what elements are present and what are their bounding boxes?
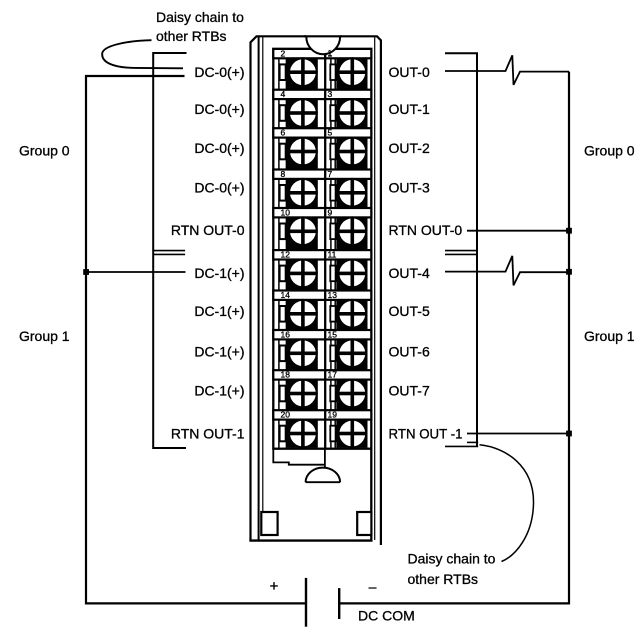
terminal 8 cavity bbox=[287, 179, 318, 208]
RTB inner wall left bbox=[258, 36, 260, 540]
terminal 1 wire clamp bbox=[330, 64, 335, 80]
terminal 18 wire clamp bbox=[280, 386, 286, 402]
RTB top notch arc bbox=[306, 37, 340, 55]
terminal 19 rail a bbox=[330, 420, 332, 448]
svg-text:OUT-0: OUT-0 bbox=[389, 64, 430, 80]
junction: RTN OUT-0 / bus bbox=[566, 228, 572, 234]
RTB inner wall left thin bbox=[262, 37, 264, 512]
svg-text:OUT-3: OUT-3 bbox=[389, 179, 430, 195]
terminal 16 screw cross bbox=[288, 352, 317, 356]
svg-text:DC-1(+): DC-1(+) bbox=[194, 343, 244, 359]
terminal 20 rail b bbox=[285, 420, 287, 448]
terminal 12 screw cross bbox=[288, 272, 317, 276]
terminal row 8|7 number bar bbox=[273, 170, 371, 179]
svg-text:OUT-7: OUT-7 bbox=[389, 383, 430, 399]
junction: RTN OUT-1 / bus bbox=[566, 431, 572, 437]
terminal 2 screw bbox=[289, 58, 317, 86]
terminal 14 screw bbox=[289, 300, 317, 328]
terminal 1 screw bbox=[338, 58, 366, 86]
terminal 15 rail a bbox=[330, 339, 332, 370]
svg-text:DC-0(+): DC-0(+) bbox=[194, 64, 244, 80]
terminal 16 rail a bbox=[278, 339, 280, 370]
svg-text:1: 1 bbox=[328, 48, 333, 58]
svg-text:18: 18 bbox=[281, 370, 291, 380]
bracket: Group 0/1 left terminals bbox=[153, 53, 186, 448]
terminal 10 cavity bbox=[287, 217, 318, 250]
wire: daisy-chain curve bottom bbox=[480, 445, 534, 562]
terminal 3 wire clamp bbox=[330, 105, 335, 121]
battery negative plate bbox=[338, 588, 340, 619]
terminal 9 wire clamp bbox=[330, 224, 335, 240]
terminal 5 rail a bbox=[330, 138, 332, 170]
terminal 19 rail b bbox=[334, 420, 336, 448]
svg-text:OUT-4: OUT-4 bbox=[389, 265, 430, 281]
RTB keying step bbox=[273, 449, 325, 465]
svg-text:OUT-5: OUT-5 bbox=[389, 303, 430, 319]
svg-text:5: 5 bbox=[328, 128, 333, 138]
terminal 3 cavity bbox=[336, 99, 367, 128]
terminal 5 screw cross bbox=[338, 150, 367, 154]
terminal 12 screw bbox=[289, 260, 317, 288]
terminal 12 rail b bbox=[285, 260, 287, 291]
RTB center divider bbox=[324, 49, 326, 449]
terminal 4 wire clamp bbox=[280, 105, 286, 121]
svg-text:Daisy chain to: Daisy chain to bbox=[156, 9, 244, 25]
terminal 14 rail a bbox=[278, 300, 280, 330]
terminal 7 cavity bbox=[336, 179, 367, 208]
terminal 7 screw cross bbox=[338, 191, 367, 195]
svg-text:RTN OUT-0: RTN OUT-0 bbox=[171, 222, 245, 238]
terminal 12 wire clamp bbox=[280, 266, 286, 282]
terminal 6 wire clamp bbox=[280, 144, 286, 160]
terminal 18 cavity bbox=[287, 380, 318, 411]
wire: RTN OUT-0 return bbox=[467, 230, 569, 232]
terminal 11 cavity bbox=[336, 260, 367, 291]
terminal 11 rail b bbox=[334, 260, 336, 291]
terminal 15 wire clamp bbox=[330, 346, 335, 362]
svg-text:RTN OUT-1: RTN OUT-1 bbox=[171, 425, 245, 441]
terminal 14 cavity bbox=[287, 300, 318, 330]
terminal 20 screw bbox=[289, 420, 317, 448]
terminal 17 screw cross bbox=[338, 392, 367, 396]
svg-text:Group 1: Group 1 bbox=[584, 328, 635, 344]
RTB top notch fill bbox=[306, 35, 340, 54]
terminal 6 rail b bbox=[285, 138, 287, 170]
terminal 10 wire clamp bbox=[280, 224, 286, 240]
terminal 10 screw cross bbox=[288, 230, 317, 234]
terminal 3 screw cross bbox=[338, 111, 367, 115]
terminal 12 cavity bbox=[287, 260, 318, 291]
wire: daisy-chain loop to DC-0(+) bbox=[102, 40, 183, 68]
svg-text:7: 7 bbox=[328, 169, 333, 179]
terminal 15 rail b bbox=[334, 339, 336, 370]
terminal 17 rail b bbox=[334, 380, 336, 411]
svg-text:Group 1: Group 1 bbox=[19, 328, 70, 344]
terminal row 14|13 number bar bbox=[273, 291, 371, 300]
terminal 14 wire clamp bbox=[280, 306, 286, 322]
terminal 1 cavity bbox=[336, 58, 367, 89]
terminal 13 rail b bbox=[334, 300, 336, 330]
svg-text:RTN OUT -1: RTN OUT -1 bbox=[389, 425, 463, 441]
svg-text:DC-1(+): DC-1(+) bbox=[194, 383, 244, 399]
stub: group boundary right lower bbox=[445, 253, 477, 255]
svg-text:2: 2 bbox=[281, 48, 286, 58]
terminal 17 screw bbox=[338, 380, 366, 408]
svg-text:RTN OUT-0: RTN OUT-0 bbox=[389, 222, 463, 238]
wire: DC-1(+) feed bbox=[86, 271, 186, 273]
terminal 11 wire clamp bbox=[330, 266, 335, 282]
svg-text:10: 10 bbox=[281, 207, 291, 217]
terminal 6 rail a bbox=[278, 138, 280, 170]
terminal 6 screw bbox=[289, 138, 317, 166]
terminal 16 cavity bbox=[287, 339, 318, 370]
terminal row 12|11 number bar bbox=[273, 250, 371, 259]
junction: left bus / DC-1 tap bbox=[83, 269, 89, 275]
terminal 3 screw bbox=[338, 99, 366, 127]
terminal 15 screw bbox=[338, 339, 366, 367]
terminal row 18|17 number bar bbox=[273, 370, 371, 379]
wire: left DC bus (battery + to DC-0) bbox=[86, 76, 305, 603]
terminal 4 screw bbox=[289, 99, 317, 127]
svg-text:12: 12 bbox=[281, 250, 291, 260]
terminal 8 rail a bbox=[278, 179, 280, 208]
terminal 19 wire clamp bbox=[330, 426, 335, 442]
svg-text:4: 4 bbox=[281, 89, 286, 99]
terminal 3 rail b bbox=[334, 99, 336, 128]
svg-text:8: 8 bbox=[281, 169, 286, 179]
terminal 10 rail b bbox=[285, 217, 287, 250]
terminal 7 wire clamp bbox=[330, 185, 335, 201]
stub: group boundary right upper bbox=[445, 250, 477, 252]
svg-text:15: 15 bbox=[328, 329, 338, 339]
svg-text:–: – bbox=[369, 579, 377, 595]
terminal 18 rail b bbox=[285, 380, 287, 411]
terminal 19 screw cross bbox=[338, 432, 367, 436]
terminal row 16|15 number bar bbox=[273, 330, 371, 339]
terminal 20 cavity bbox=[287, 420, 318, 448]
svg-text:17: 17 bbox=[328, 370, 338, 380]
terminal 16 wire clamp bbox=[280, 346, 286, 362]
terminal 15 screw cross bbox=[338, 352, 367, 356]
terminal 5 wire clamp bbox=[330, 144, 335, 160]
svg-text:DC-1(+): DC-1(+) bbox=[194, 265, 244, 281]
bracket: Group 0/1 right terminals bbox=[445, 53, 477, 446]
terminal 7 rail b bbox=[334, 179, 336, 208]
svg-text:OUT-6: OUT-6 bbox=[389, 343, 430, 359]
terminal 7 screw bbox=[338, 179, 366, 207]
svg-text:6: 6 bbox=[281, 128, 286, 138]
RTB housing outline bbox=[251, 36, 381, 545]
svg-text:Group 0: Group 0 bbox=[19, 143, 70, 159]
terminal 1 rail a bbox=[330, 58, 332, 89]
terminal 20 wire clamp bbox=[280, 426, 286, 442]
svg-text:Group 0: Group 0 bbox=[584, 143, 635, 159]
terminal 4 rail b bbox=[285, 99, 287, 128]
terminal 6 screw cross bbox=[288, 150, 317, 154]
terminal 2 cavity bbox=[287, 58, 318, 89]
terminal 13 screw bbox=[338, 300, 366, 328]
RTB top edge over notch bbox=[304, 35, 342, 37]
terminal row 2|1 number bar bbox=[273, 49, 371, 58]
terminal 19 screw bbox=[338, 420, 366, 448]
terminal 8 rail b bbox=[285, 179, 287, 208]
terminal 11 rail a bbox=[330, 260, 332, 291]
svg-text:+: + bbox=[270, 578, 279, 595]
RTB housing bottom edge bbox=[249, 539, 372, 541]
terminal 8 screw bbox=[289, 179, 317, 207]
svg-text:DC-0(+): DC-0(+) bbox=[194, 179, 244, 195]
stub: group boundary left upper bbox=[153, 250, 185, 252]
terminal 18 rail a bbox=[278, 380, 280, 411]
terminal 4 screw cross bbox=[288, 111, 317, 115]
terminal 5 cavity bbox=[336, 138, 367, 170]
terminal 3 rail a bbox=[330, 99, 332, 128]
terminal 17 wire clamp bbox=[330, 386, 335, 402]
terminal row 6|5 number bar bbox=[273, 128, 371, 137]
RTB center divider lower bbox=[324, 449, 326, 469]
terminal 1 screw cross bbox=[338, 70, 367, 74]
terminal 9 rail b bbox=[334, 217, 336, 250]
terminal 14 rail b bbox=[285, 300, 287, 330]
terminal 2 wire clamp bbox=[280, 64, 286, 80]
svg-text:Daisy chain to: Daisy chain to bbox=[408, 551, 496, 567]
terminal 6 cavity bbox=[287, 138, 318, 170]
svg-text:OUT-2: OUT-2 bbox=[389, 140, 430, 156]
terminal 9 screw cross bbox=[338, 230, 367, 234]
svg-text:OUT-1: OUT-1 bbox=[389, 101, 430, 117]
svg-text:11: 11 bbox=[328, 250, 337, 260]
terminal 2 rail b bbox=[285, 58, 287, 89]
terminal 13 wire clamp bbox=[330, 306, 335, 322]
svg-text:9: 9 bbox=[328, 207, 333, 217]
RTB dome latch bbox=[306, 468, 341, 483]
terminal row 20|19 number bar bbox=[273, 410, 371, 419]
terminal 7 rail a bbox=[330, 179, 332, 208]
RTB right edge lower bbox=[370, 449, 372, 540]
terminal 13 rail a bbox=[330, 300, 332, 330]
terminal 1 rail b bbox=[334, 58, 336, 89]
RTB foot left bbox=[261, 512, 277, 535]
wire: RTN OUT-1 return bbox=[467, 433, 569, 435]
terminal 2 screw cross bbox=[288, 70, 317, 74]
terminal 14 screw cross bbox=[288, 312, 317, 316]
svg-text:other RTBs: other RTBs bbox=[408, 571, 479, 587]
terminal 17 rail a bbox=[330, 380, 332, 411]
terminal 20 screw cross bbox=[288, 432, 317, 436]
svg-text:DC COM: DC COM bbox=[358, 608, 415, 624]
terminal row 10|9 number bar bbox=[273, 208, 371, 217]
svg-text:20: 20 bbox=[281, 410, 291, 420]
svg-text:DC-0(+): DC-0(+) bbox=[194, 101, 244, 117]
terminal 11 screw cross bbox=[338, 272, 367, 276]
battery positive plate bbox=[305, 578, 307, 627]
terminal 16 rail b bbox=[285, 339, 287, 370]
svg-text:other RTBs: other RTBs bbox=[156, 28, 227, 44]
svg-text:19: 19 bbox=[328, 410, 338, 420]
svg-text:14: 14 bbox=[281, 290, 291, 300]
svg-text:DC-0(+): DC-0(+) bbox=[194, 140, 244, 156]
svg-text:DC-1(+): DC-1(+) bbox=[194, 303, 244, 319]
terminal 5 rail b bbox=[334, 138, 336, 170]
junction: OUT-4 / bus bbox=[566, 269, 572, 275]
wire: right return bus (to battery -) bbox=[340, 72, 569, 604]
terminal 9 screw bbox=[338, 217, 366, 245]
terminal 15 cavity bbox=[336, 339, 367, 370]
terminal 12 rail a bbox=[278, 260, 280, 291]
stub: right bottom upper bbox=[467, 441, 478, 443]
terminal 13 cavity bbox=[336, 300, 367, 330]
terminal 9 cavity bbox=[336, 217, 367, 250]
terminal 13 screw cross bbox=[338, 312, 367, 316]
wire: OUT-4 load with break symbol bbox=[445, 256, 569, 286]
terminal 19 cavity bbox=[336, 420, 367, 448]
stub: right bottom lower bbox=[445, 445, 478, 447]
wire: OUT-0 load with break symbol bbox=[445, 55, 569, 85]
terminal 8 wire clamp bbox=[280, 185, 286, 201]
RTB terminal row frame bbox=[273, 49, 371, 449]
terminal 18 screw cross bbox=[288, 392, 317, 396]
terminal 9 rail a bbox=[330, 217, 332, 250]
terminal 10 rail a bbox=[278, 217, 280, 250]
terminal 8 screw cross bbox=[288, 191, 317, 195]
terminal 17 cavity bbox=[336, 380, 367, 411]
terminal 11 screw bbox=[338, 260, 366, 288]
terminal 16 screw bbox=[289, 339, 317, 367]
svg-text:16: 16 bbox=[281, 329, 291, 339]
terminal 4 rail a bbox=[278, 99, 280, 128]
terminal 18 screw bbox=[289, 380, 317, 408]
stub: group boundary left lower bbox=[153, 253, 185, 255]
terminal row 4|3 number bar bbox=[273, 90, 371, 99]
svg-text:3: 3 bbox=[328, 89, 333, 99]
terminal 4 cavity bbox=[287, 99, 318, 128]
terminal 20 rail a bbox=[278, 420, 280, 448]
RTB dome base bbox=[306, 481, 341, 483]
RTB foot right bbox=[357, 512, 371, 535]
terminal 10 screw bbox=[289, 217, 317, 245]
RTB inner wall right thin bbox=[374, 37, 376, 541]
svg-text:13: 13 bbox=[328, 290, 338, 300]
terminal 5 screw bbox=[338, 138, 366, 166]
terminal 2 rail a bbox=[278, 58, 280, 89]
